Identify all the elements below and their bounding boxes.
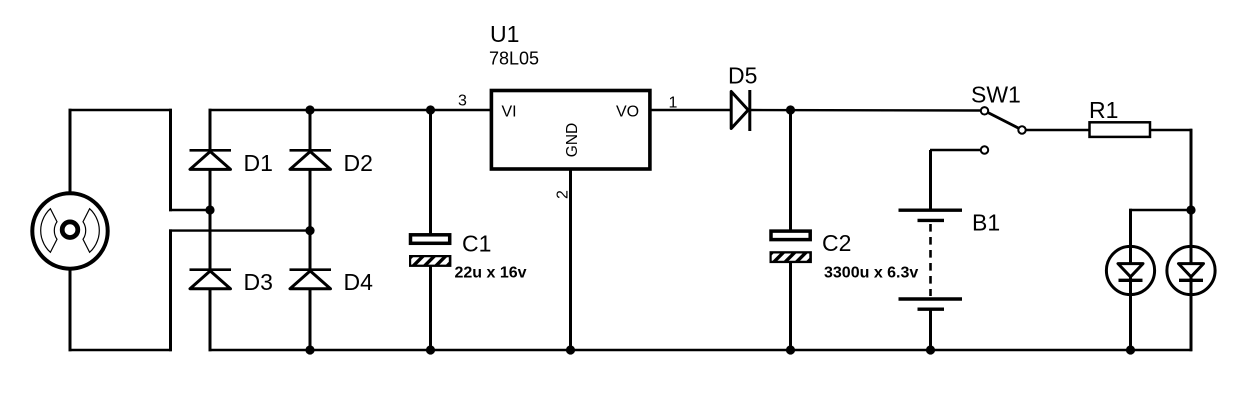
svg-text:3: 3 (458, 93, 467, 110)
svg-text:SW1: SW1 (971, 82, 1021, 108)
svg-text:U1: U1 (490, 21, 519, 47)
svg-text:GND: GND (564, 123, 581, 157)
svg-text:C2: C2 (822, 230, 851, 256)
svg-text:VO: VO (616, 104, 639, 121)
svg-text:3300u x 6.3v: 3300u x 6.3v (824, 265, 918, 282)
svg-text:22u x 16v: 22u x 16v (455, 265, 527, 282)
svg-text:B1: B1 (972, 210, 1000, 236)
svg-text:C1: C1 (462, 231, 491, 257)
svg-text:D5: D5 (728, 63, 757, 89)
svg-text:R1: R1 (1089, 97, 1118, 123)
svg-text:78L05: 78L05 (489, 49, 539, 69)
svg-text:D3: D3 (244, 269, 273, 295)
svg-text:2: 2 (555, 190, 572, 199)
svg-text:1: 1 (669, 95, 678, 112)
svg-text:D1: D1 (244, 150, 273, 176)
svg-text:D4: D4 (344, 269, 374, 295)
svg-text:VI: VI (502, 104, 517, 121)
svg-text:D2: D2 (344, 150, 373, 176)
